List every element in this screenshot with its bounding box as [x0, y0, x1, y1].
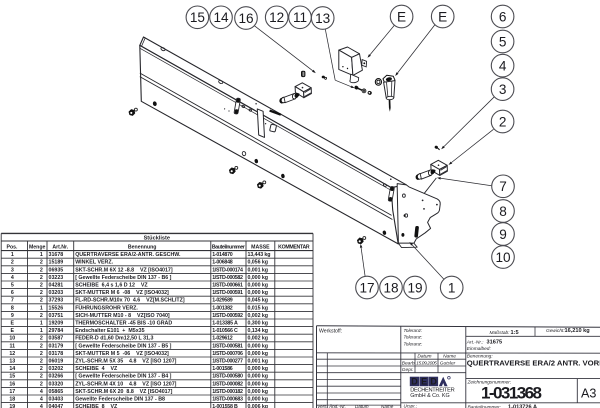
svg-text:4: 4 — [40, 389, 43, 395]
svg-text:19: 19 — [9, 404, 15, 408]
guide bar plate on beam — [257, 109, 264, 137]
svg-text:1: 1 — [448, 280, 456, 295]
svg-text:Datum: Datum — [417, 354, 431, 360]
svg-text:4: 4 — [11, 275, 14, 281]
svg-text:1: 1 — [40, 252, 43, 258]
end plate wing hole c — [436, 204, 438, 206]
svg-text:FEDER-D d1,60 Dm12,50 L 31,3: FEDER-D d1,60 Dm12,50 L 31,3 — [75, 336, 153, 342]
balloon 4 at 503,66 — [491, 54, 514, 77]
leader line balloon 16 — [255, 26, 313, 71]
svg-text:7: 7 — [499, 179, 507, 194]
svg-text:15526: 15526 — [49, 305, 64, 311]
angle bracket pos.2 middle — [295, 83, 311, 98]
svg-text:Art.Nr.: Art.Nr. — [52, 245, 68, 251]
hex bolt left of beam — [129, 108, 138, 115]
small square hole on beam face — [270, 124, 277, 132]
svg-text:1-010566 C: 1-010566 C — [212, 328, 238, 334]
slot dash on beam face — [270, 111, 281, 115]
end plate hole ring a — [403, 194, 406, 197]
beam crease line upper — [140, 73, 392, 215]
svg-text:4: 4 — [40, 397, 43, 403]
svg-text:13: 13 — [315, 11, 330, 26]
balloon 3 at 503,89 — [491, 78, 514, 101]
svg-text:Menge: Menge — [29, 245, 46, 251]
svg-text:Datum: Datum — [355, 404, 369, 408]
svg-text:29784: 29784 — [49, 328, 64, 334]
svg-text:1/STD-000582: 1/STD-000582 — [212, 275, 243, 281]
svg-text:0,000 kg: 0,000 kg — [248, 343, 269, 349]
end plate hole ring b — [405, 214, 408, 217]
svg-text:Maßstab:: Maßstab: — [490, 330, 511, 336]
svg-text:4: 4 — [40, 404, 43, 408]
svg-text:Endschalter E101 + M5x35: Endschalter E101 + M5x35 — [75, 328, 144, 334]
balloon 16 at 246,18 — [235, 7, 258, 30]
svg-text:03751: 03751 — [49, 313, 64, 319]
title block bottom row labels — [317, 403, 418, 408]
svg-text:0,000 kg: 0,000 kg — [248, 381, 269, 387]
end plate dark hole corner — [404, 214, 406, 217]
svg-text:E: E — [421, 377, 427, 387]
svg-text:1-006848: 1-006848 — [212, 260, 233, 266]
svg-text:6: 6 — [11, 290, 14, 296]
hex bolt below beam b — [257, 181, 266, 188]
svg-text:37293: 37293 — [49, 298, 64, 304]
svg-text:06019: 06019 — [49, 359, 64, 365]
beam top face hole middle — [218, 80, 223, 84]
svg-text:Änd.-Nr.: Änd.-Nr. — [328, 403, 346, 408]
svg-text:2: 2 — [40, 336, 43, 342]
svg-text:Name: Name — [381, 404, 394, 408]
svg-text:SKT-SCHR.M 6X 12 -8.8 VZ [I: SKT-SCHR.M 6X 12 -8.8 VZ [ISO4017] — [75, 267, 173, 273]
tiny screw target of balloon 3 — [434, 145, 440, 150]
svg-text:2: 2 — [40, 313, 43, 319]
svg-text:Benennung: Benennung — [128, 245, 157, 251]
leader line balloon 3 — [444, 97, 494, 147]
svg-text:1: 1 — [40, 321, 43, 327]
svg-text:GmbH & Co. KG: GmbH & Co. KG — [410, 393, 450, 399]
beam front face ring hole right — [383, 183, 387, 187]
balloon 7 at 503,186 — [492, 175, 515, 198]
svg-text:WINKEL VERZ.: WINKEL VERZ. — [75, 260, 113, 266]
balloon 8 at 503,211 — [492, 200, 515, 223]
beam lower band dark hole b — [281, 173, 285, 178]
svg-text:Bearb.: Bearb. — [402, 360, 416, 366]
svg-text:11: 11 — [293, 10, 307, 25]
svg-text:2: 2 — [40, 267, 43, 273]
svg-text:03178: 03178 — [49, 351, 64, 357]
svg-text:10: 10 — [9, 336, 15, 342]
svg-text:0,000 kg: 0,000 kg — [248, 351, 269, 357]
endschalter E cylinder — [375, 75, 395, 112]
svg-text:17: 17 — [359, 280, 374, 295]
svg-text:0,300 kg: 0,300 kg — [248, 321, 269, 327]
svg-text:1-001586: 1-001586 — [212, 366, 233, 372]
hex bolt below beam right (pos.17) — [357, 237, 366, 244]
svg-text:2: 2 — [40, 298, 43, 304]
svg-text:1/STD-000581: 1/STD-000581 — [212, 343, 243, 349]
svg-text:14: 14 — [9, 366, 15, 372]
svg-text:SICH-MUTTER M10 - 8 VZ[ISO: SICH-MUTTER M10 - 8 VZ[ISO 7040] — [75, 313, 170, 319]
svg-text:13,443 kg: 13,443 kg — [248, 252, 271, 258]
balloon 15 at 197,17 — [186, 6, 209, 29]
leader line balloon 17 — [361, 248, 365, 277]
beam top face small hole right — [390, 178, 392, 180]
svg-text:1: 1 — [11, 252, 14, 258]
svg-text:SCHEIBE 8 VZ: SCHEIBE 8 VZ — [75, 404, 118, 408]
svg-text:Einmalbed:: Einmalbed: — [467, 346, 492, 352]
title block toleranz labels — [404, 328, 423, 346]
svg-text:1/STD-000277: 1/STD-000277 — [212, 359, 243, 365]
end plate wing hole b — [423, 208, 425, 210]
svg-text:03202: 03202 — [49, 366, 64, 372]
svg-text:0,000 kg: 0,000 kg — [248, 374, 269, 380]
svg-text:19: 19 — [407, 280, 422, 295]
balloon E at 443,16 — [431, 5, 454, 28]
svg-text:0,001 kg: 0,001 kg — [248, 359, 269, 365]
svg-text:16: 16 — [238, 11, 253, 26]
svg-text:0,000 kg: 0,000 kg — [248, 389, 269, 395]
balloon 5 at 503,42 — [491, 30, 514, 53]
svg-text:MASSE: MASSE — [251, 245, 270, 251]
beam top face hole left — [160, 47, 165, 51]
beam front face — [140, 45, 398, 244]
svg-text:06935: 06935 — [49, 267, 64, 273]
svg-text:0,056 kg: 0,056 kg — [248, 260, 269, 266]
svg-text:0,015 kg: 0,015 kg — [248, 305, 269, 311]
leader line balloon 7 — [441, 178, 492, 186]
svg-text:Gepr.: Gepr. — [402, 367, 414, 373]
small nut pos.12 — [302, 71, 305, 76]
svg-text:D: D — [430, 377, 437, 387]
svg-text:Art.-Nr.:: Art.-Nr.: — [466, 339, 484, 345]
svg-text:2: 2 — [40, 359, 43, 365]
svg-text:03587: 03587 — [49, 336, 64, 342]
parts table data rows — [9, 252, 270, 408]
svg-text:03203: 03203 — [49, 290, 64, 296]
svg-text:1/STD-000580: 1/STD-000580 — [212, 374, 243, 380]
svg-text:2: 2 — [40, 366, 43, 372]
svg-text:18: 18 — [383, 280, 398, 295]
svg-text:2: 2 — [40, 374, 43, 380]
svg-text:1-013385 A: 1-013385 A — [212, 321, 238, 327]
svg-text:1/STD-000592: 1/STD-000592 — [212, 313, 243, 319]
angle bracket pos.2 right — [431, 160, 448, 175]
svg-text:0,045 kg: 0,045 kg — [248, 298, 269, 304]
svg-text:03320: 03320 — [49, 381, 64, 387]
svg-text:0,000 kg: 0,000 kg — [248, 275, 269, 281]
svg-text:E: E — [11, 328, 15, 334]
svg-text:31678: 31678 — [49, 252, 64, 258]
svg-text:2: 2 — [40, 260, 43, 266]
beam front face dot a — [224, 108, 225, 109]
svg-text:SKT-SCHR.M 6X 20 8.8 VZ [I: SKT-SCHR.M 6X 20 8.8 VZ [ISO4017] — [75, 389, 172, 395]
beam end plate flange — [397, 184, 440, 244]
svg-text:2: 2 — [11, 260, 14, 266]
svg-text:31675: 31675 — [487, 340, 503, 346]
svg-text:Urspr.:: Urspr.: — [404, 404, 418, 408]
svg-text:03266: 03266 — [49, 374, 64, 380]
svg-text:2: 2 — [40, 290, 43, 296]
svg-text:Pos.: Pos. — [7, 245, 19, 251]
balloon 14 at 221,17 — [210, 6, 233, 29]
svg-text:1/STD-000661: 1/STD-000661 — [212, 283, 243, 289]
balloon E at 402,16 — [390, 5, 413, 28]
svg-text:2: 2 — [40, 381, 43, 387]
spring clip right — [388, 186, 394, 201]
end plate dark slot — [414, 226, 419, 238]
svg-text:15: 15 — [190, 10, 205, 25]
svg-text:2: 2 — [40, 351, 43, 357]
svg-text:12: 12 — [9, 351, 15, 357]
svg-text:13: 13 — [9, 359, 15, 365]
svg-text:3: 3 — [11, 267, 14, 273]
balloon 13 at 323,18 — [311, 7, 334, 30]
svg-text:FL-RD-SCHR.M10x 70 4.6 VZ[: FL-RD-SCHR.M10x 70 4.6 VZ[M.SCHLITZ] — [75, 298, 185, 304]
svg-text:0,002 kg: 0,002 kg — [248, 336, 269, 342]
svg-text:8: 8 — [499, 204, 507, 219]
svg-text:15: 15 — [9, 374, 15, 380]
beam lower band ring hole — [242, 151, 246, 156]
beam lower band dark hole a — [254, 159, 258, 164]
parts table header row — [7, 245, 310, 251]
balloon 17 at 367,288 — [356, 276, 379, 299]
svg-text:1-014870: 1-014870 — [212, 252, 233, 258]
screw and guide tube pos.7/8 right — [415, 169, 436, 181]
svg-text:03179: 03179 — [49, 343, 64, 349]
svg-text:QUERTRAVERSE ERA/2 ANTR. VORMO: QUERTRAVERSE ERA/2 ANTR. VORMONTIERT — [467, 359, 600, 368]
svg-text:16,210 kg: 16,210 kg — [565, 328, 591, 334]
beam front face dark hole left — [152, 101, 157, 107]
svg-text:3: 3 — [499, 82, 507, 97]
balloon 2 at 503,122 — [491, 110, 514, 133]
svg-text:2: 2 — [40, 283, 43, 289]
svg-text:Toleranz:: Toleranz: — [404, 328, 423, 333]
end plate ear line — [424, 178, 436, 193]
thermoschalter box E — [339, 47, 367, 83]
svg-text:2: 2 — [40, 275, 43, 281]
hex bolt below beam a — [229, 166, 238, 173]
svg-text:03403: 03403 — [49, 397, 64, 403]
svg-text:1-001558 B: 1-001558 B — [212, 404, 238, 408]
svg-text:5: 5 — [11, 283, 14, 289]
svg-text:D: D — [411, 377, 418, 387]
beam front face dot b — [228, 110, 229, 111]
svg-text:10: 10 — [495, 250, 511, 265]
diagonal screw set pos.16/15/14 — [354, 85, 373, 95]
svg-text:19209: 19209 — [49, 321, 64, 327]
beam lower band dark hole right end — [382, 230, 386, 235]
svg-text:SCHEIBE 6,4 s 1,6 D 12 VZ: SCHEIBE 6,4 s 1,6 D 12 VZ — [75, 283, 148, 289]
svg-text:1-013726 A: 1-013726 A — [508, 404, 537, 408]
balloon 19 at 415,288 — [404, 276, 427, 299]
svg-text:15.09.2005: 15.09.2005 — [416, 360, 437, 366]
svg-text:15189: 15189 — [49, 260, 64, 266]
svg-text:SCHEIBE 4 VZ: SCHEIBE 4 VZ — [75, 366, 118, 372]
svg-text:Toleranz:: Toleranz: — [404, 335, 423, 340]
end plate wing hole a — [422, 200, 424, 202]
svg-text:[ Gewellte Federscheibe DIN 13: [ Gewellte Federscheibe DIN 137 - B5 ] — [75, 343, 171, 349]
svg-text:0,134 kg: 0,134 kg — [248, 328, 269, 334]
balloon 10 at 503,257 — [492, 246, 515, 269]
balloon 9 at 503,234 — [492, 223, 515, 246]
svg-text:1/STD-000706: 1/STD-000706 — [212, 351, 243, 357]
svg-text:8: 8 — [11, 305, 14, 311]
svg-text:FÜHRUNGSROHR VERZ.: FÜHRUNGSROHR VERZ. — [75, 304, 138, 311]
svg-text:Stückliste: Stückliste — [144, 235, 170, 241]
svg-text:Name: Name — [443, 354, 456, 360]
svg-text:1-001382: 1-001382 — [212, 305, 233, 311]
screw and guide tube pos.7/8 middle — [279, 92, 300, 104]
svg-text:03223: 03223 — [49, 275, 64, 281]
beam front face ring hole a — [242, 105, 246, 108]
svg-text:Werkstoff:: Werkstoff: — [319, 328, 342, 334]
parts table grid — [1, 233, 313, 408]
title block datum name header — [402, 354, 456, 373]
svg-text:KOMMENTAR: KOMMENTAR — [278, 245, 310, 251]
svg-text:ZYL-SCHR.M 5X 35 4.8 VZ: ZYL-SCHR.M 5X 35 4.8 VZ [ISO 1207] — [75, 359, 176, 365]
svg-text:Gewicht:: Gewicht: — [546, 328, 565, 334]
leader line balloon 1 — [412, 245, 444, 279]
svg-text:0,006 kg: 0,006 kg — [248, 404, 269, 408]
end plate bottom sliver — [398, 243, 417, 247]
svg-text:1:5: 1:5 — [511, 330, 519, 336]
svg-text:0,000 kg: 0,000 kg — [248, 366, 269, 372]
svg-text:[ Gewellte Federscheibe DIN 13: [ Gewellte Federscheibe DIN 137 - B4 ] — [75, 374, 171, 380]
svg-text:12: 12 — [269, 10, 284, 25]
svg-text:17: 17 — [9, 389, 15, 395]
svg-text:QUERTRAVERSE ERA/2-ANTR. GESCH: QUERTRAVERSE ERA/2-ANTR. GESCHW. — [75, 252, 181, 258]
svg-text:1: 1 — [40, 305, 43, 311]
svg-text:1/STD-000182: 1/STD-000182 — [212, 389, 243, 395]
svg-text:1-029589: 1-029589 — [212, 298, 233, 304]
svg-text:Vers.: Vers. — [317, 404, 328, 408]
svg-text:Toleranz:: Toleranz: — [404, 341, 423, 346]
svg-text:04047: 04047 — [49, 404, 64, 408]
end plate dark hole bottom — [401, 233, 404, 237]
svg-text:9: 9 — [499, 227, 507, 242]
svg-text:16: 16 — [9, 381, 15, 387]
tiny screw pos.13 — [322, 76, 327, 80]
leader line balloon E endschalter — [398, 25, 435, 73]
svg-text:0,000 kg: 0,000 kg — [248, 290, 269, 296]
leader line balloon E thermoschalter — [370, 25, 395, 55]
balloon 11 at 300,17 — [289, 6, 312, 29]
svg-text:4: 4 — [499, 59, 507, 74]
svg-text:Bauteilnummer: Bauteilnummer — [212, 245, 245, 251]
svg-text:1/STD-000082: 1/STD-000082 — [212, 381, 243, 387]
svg-text:E: E — [11, 321, 15, 327]
svg-text:05865: 05865 — [49, 389, 64, 395]
balloon 6 at 503,16 — [491, 5, 514, 28]
leader line balloon 2 — [452, 129, 494, 162]
svg-text:Bauteilnummer:: Bauteilnummer: — [468, 404, 502, 408]
beam left end cap inner edge — [142, 38, 146, 46]
svg-text:7: 7 — [11, 298, 14, 304]
DEDA logo blocks — [410, 377, 450, 387]
beam crease line lower — [140, 77, 393, 220]
svg-text:A3: A3 — [581, 386, 596, 400]
svg-text:1-029612: 1-029612 — [212, 336, 233, 342]
spring clip left — [234, 98, 241, 114]
beam chamfer line under top edge — [140, 48, 392, 190]
svg-text:2: 2 — [499, 114, 507, 129]
balloon 18 at 391,288 — [380, 276, 403, 299]
svg-text:14: 14 — [213, 10, 229, 25]
beam top face small hole — [255, 103, 257, 105]
balloon 12 at 277,17 — [265, 6, 288, 29]
beam front face ring hole b — [249, 109, 252, 112]
svg-text:1/STD-000174: 1/STD-000174 — [212, 267, 243, 273]
svg-text:1/STD-000683: 1/STD-000683 — [212, 397, 243, 403]
svg-text:5: 5 — [499, 34, 507, 49]
dot near square hole — [265, 123, 266, 124]
svg-text:18: 18 — [9, 397, 15, 403]
svg-text:2: 2 — [40, 343, 43, 349]
title block frame — [317, 326, 600, 408]
svg-text:SKT-MUTTER M 6 -08 VZ [ISO: SKT-MUTTER M 6 -08 VZ [ISO4032] — [75, 290, 169, 296]
beam top face — [140, 37, 407, 188]
svg-text:0,002 kg: 0,002 kg — [248, 313, 269, 319]
svg-text:1: 1 — [40, 328, 43, 334]
svg-text:THERMOSCHALTER -45 BIS -10 GRA: THERMOSCHALTER -45 BIS -10 GRAD — [75, 321, 172, 327]
svg-text:ZYL-SCHR.M 4X 10 4.8 VZ: ZYL-SCHR.M 4X 10 4.8 VZ [ISO 1207] — [75, 381, 176, 387]
svg-text:E: E — [397, 9, 406, 24]
svg-text:1/STD-000591: 1/STD-000591 — [212, 290, 243, 296]
svg-text:0,001 kg: 0,001 kg — [248, 267, 269, 273]
leader line balloon 13 — [325, 29, 335, 80]
svg-text:6: 6 — [499, 9, 507, 24]
svg-text:0,000 kg: 0,000 kg — [248, 283, 269, 289]
svg-text:9: 9 — [11, 313, 14, 319]
svg-text:11: 11 — [9, 343, 15, 349]
svg-text:1-031368: 1-031368 — [481, 384, 542, 403]
svg-text:SKT-MUTTER M 5 -06 VZ [ISO: SKT-MUTTER M 5 -06 VZ [ISO4032] — [75, 351, 169, 357]
svg-text:E: E — [438, 9, 447, 24]
balloon 1 at 452,288 — [440, 276, 463, 299]
svg-text:04281: 04281 — [49, 283, 64, 289]
svg-text:0,000 kg: 0,000 kg — [248, 397, 269, 403]
svg-text:Gutsler: Gutsler — [440, 360, 456, 366]
svg-text:Gewellte Federscheibe DIN 137: Gewellte Federscheibe DIN 137 - B8 — [75, 397, 165, 403]
svg-text:[ Gewellte Federscheibe DIN 13: [ Gewellte Federscheibe DIN 137 - B6 ] — [75, 275, 171, 281]
